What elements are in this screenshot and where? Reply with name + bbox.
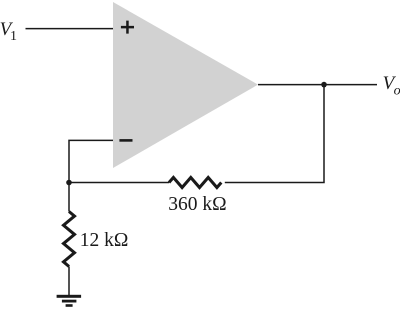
wire junction down to resistor R1 [68,183,70,212]
node junction at inverting net [66,180,72,186]
op-amp plus input symbol [121,21,134,34]
resistor R2 360 kOhm zigzag [169,178,221,188]
wire resistor R1 to ground [68,267,70,296]
wire minus input to left bend [69,140,113,182]
ground symbol [57,295,82,307]
svg-text:1: 1 [10,29,17,44]
wire resistor R2 to right bend [225,85,324,183]
wire V1 to plus input [26,28,114,30]
node junction at output [321,82,327,88]
svg-text:12 kΩ: 12 kΩ [80,230,129,251]
op-amp U1 (triangle body) [113,2,258,168]
resistor R1 12 kOhm zigzag [64,212,75,267]
svg-text:360 kΩ: 360 kΩ [168,194,226,215]
wire op-amp output to Vo [258,84,377,86]
svg-text:o: o [394,84,400,99]
wire junction to resistor R2 [69,182,169,184]
op-amp minus input symbol [119,139,132,142]
